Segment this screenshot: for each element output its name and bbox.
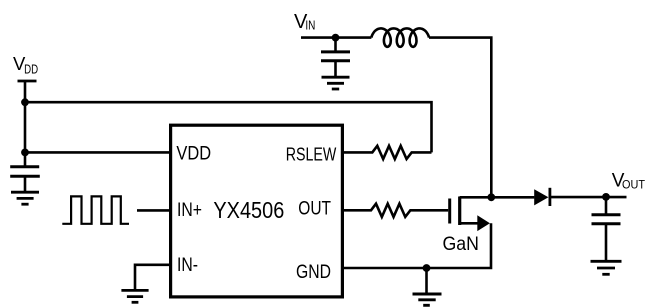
svg-text:VDD: VDD	[176, 144, 211, 165]
svg-text:OUT: OUT	[622, 180, 645, 192]
svg-text:OUT: OUT	[298, 199, 331, 220]
svg-text:RSLEW: RSLEW	[286, 144, 337, 164]
svg-text:IN+: IN+	[177, 200, 202, 221]
svg-text:IN-: IN-	[177, 255, 198, 276]
svg-text:YX4506: YX4506	[213, 197, 284, 223]
svg-text:DD: DD	[24, 63, 38, 77]
svg-text:IN: IN	[305, 18, 315, 32]
svg-text:GND: GND	[296, 262, 331, 283]
svg-text:GaN: GaN	[443, 233, 479, 255]
